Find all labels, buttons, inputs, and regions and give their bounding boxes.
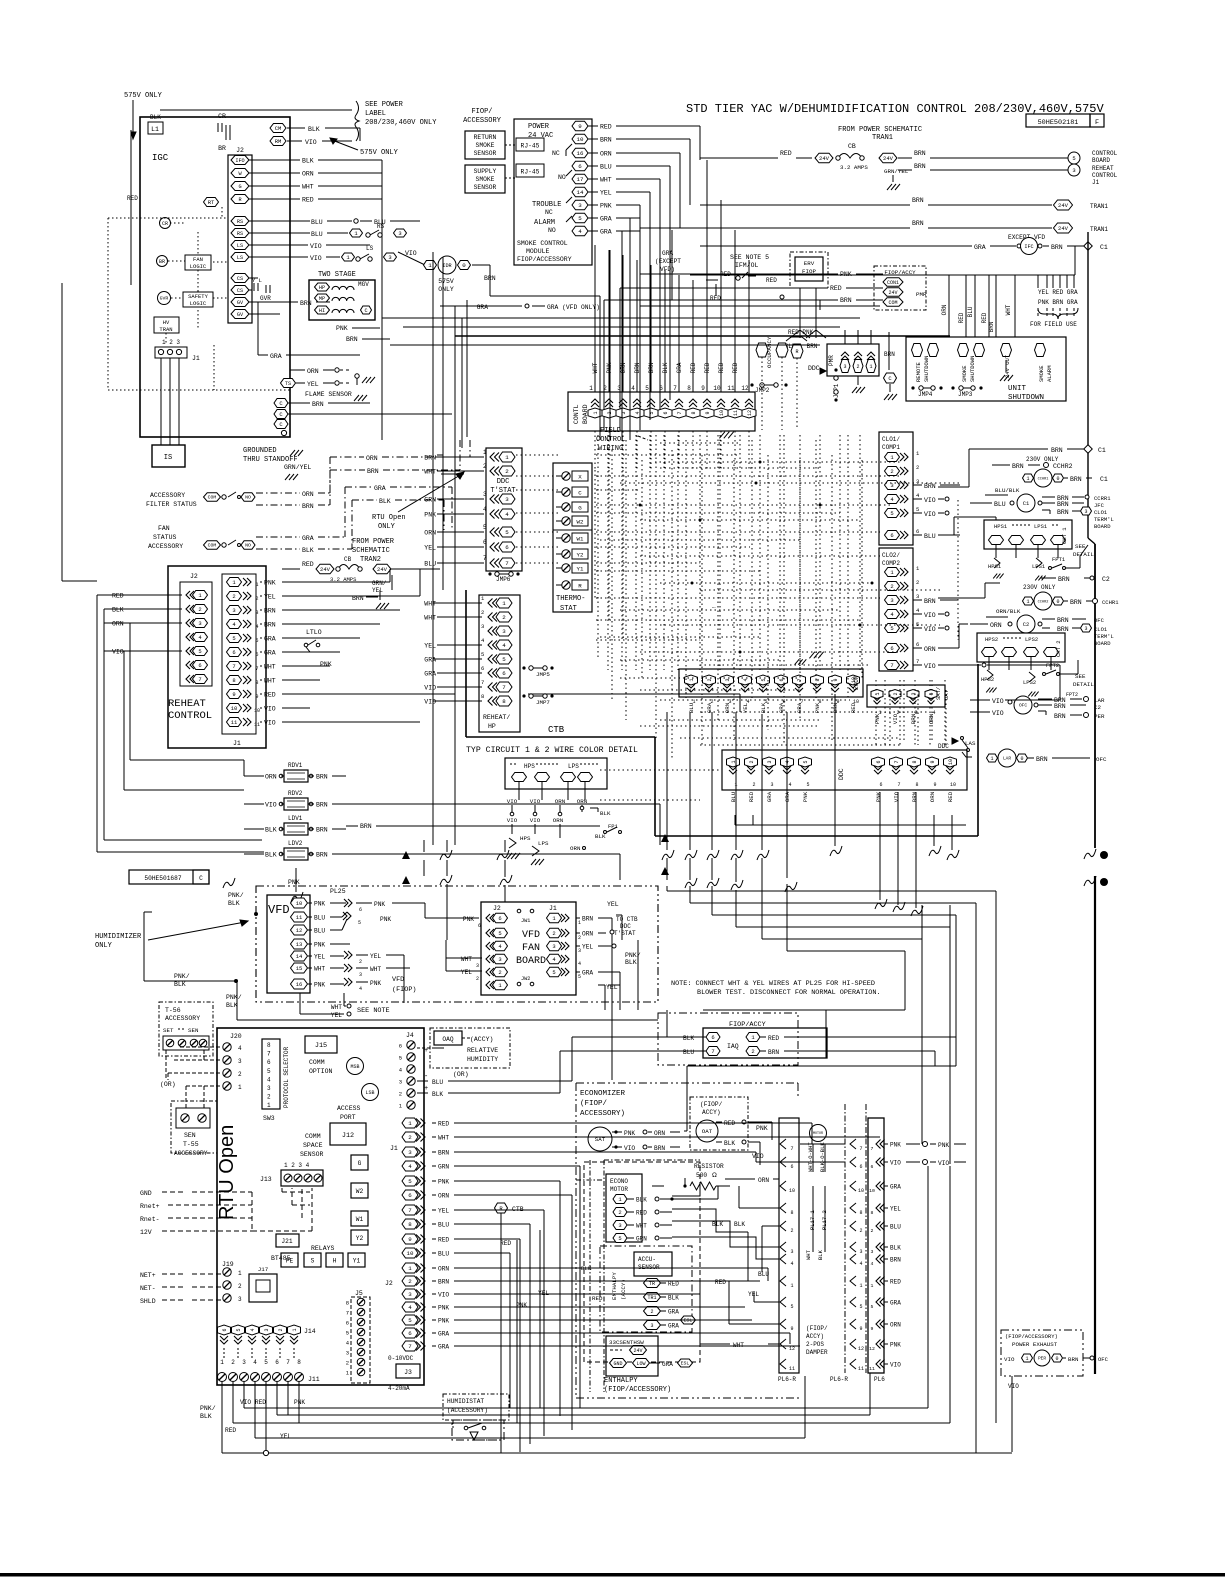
- svg-text:6: 6: [890, 532, 893, 539]
- svg-text:VIO: VIO: [752, 1153, 764, 1160]
- svg-text:3: 3: [916, 593, 919, 600]
- svg-text:HV: HV: [163, 319, 170, 326]
- svg-text:GV: GV: [237, 312, 244, 318]
- svg-text:BRN: BRN: [264, 622, 276, 629]
- svg-text:3: 3: [498, 956, 501, 963]
- svg-text:1: 1: [578, 920, 581, 926]
- svg-text:5: 5: [267, 1068, 271, 1075]
- svg-text:BRN: BRN: [300, 300, 312, 307]
- svg-text:BLK: BLK: [265, 852, 277, 859]
- svg-text:CCHR1: CCHR1: [1102, 599, 1119, 606]
- svg-text:TRAN: TRAN: [159, 326, 172, 333]
- svg-text:SMOKE: SMOKE: [1038, 365, 1045, 382]
- svg-text:RESISTOR: RESISTOR: [694, 1163, 724, 1170]
- svg-text:GRN/YEL: GRN/YEL: [284, 464, 311, 471]
- svg-text:FAN: FAN: [522, 943, 540, 954]
- svg-text:VIO: VIO: [507, 817, 518, 824]
- svg-text:BLU: BLU: [432, 1079, 443, 1086]
- svg-text:MGV: MGV: [358, 281, 369, 288]
- svg-text:BRN: BRN: [1051, 447, 1063, 454]
- svg-text:4: 4: [238, 1045, 242, 1052]
- svg-text:SAFETY: SAFETY: [188, 293, 209, 300]
- svg-text:10: 10: [254, 708, 260, 714]
- svg-text:1: 1: [869, 364, 872, 370]
- svg-text:PNK/: PNK/: [228, 892, 244, 899]
- svg-text:2: 2: [502, 614, 506, 621]
- svg-text:WHT: WHT: [733, 1342, 744, 1349]
- svg-text:8: 8: [255, 680, 258, 686]
- svg-text:RED: RED: [438, 1237, 449, 1244]
- svg-text:CKT 1: CKT 1: [1061, 527, 1068, 544]
- svg-text:7: 7: [859, 1146, 862, 1152]
- svg-text:RED: RED: [890, 1279, 901, 1286]
- svg-text:7: 7: [502, 684, 506, 691]
- svg-text:PER: PER: [1094, 713, 1105, 720]
- svg-text:YEL: YEL: [461, 969, 472, 976]
- svg-text:CS: CS: [237, 288, 243, 294]
- svg-text:GRN: GRN: [636, 1236, 647, 1243]
- svg-text:(EXCEPT: (EXCEPT: [655, 258, 681, 265]
- svg-text:3: 3: [618, 1222, 621, 1229]
- svg-text:3: 3: [1084, 626, 1087, 632]
- svg-text:ECONO: ECONO: [610, 1178, 628, 1185]
- svg-text:10: 10: [407, 1250, 414, 1257]
- svg-text:VFD: VFD: [522, 930, 540, 941]
- svg-text:BRN: BRN: [302, 503, 314, 510]
- svg-text:JMP3: JMP3: [958, 391, 973, 398]
- svg-text:MSB: MSB: [350, 1064, 359, 1070]
- svg-text:PE: PE: [286, 1258, 294, 1265]
- svg-text:5: 5: [498, 930, 501, 937]
- svg-text:NOTE: CONNECT WHT & YEL WIRES: NOTE: CONNECT WHT & YEL WIRES AT PL25 FO…: [671, 980, 875, 988]
- svg-text:8: 8: [691, 411, 697, 414]
- svg-text:RED: RED: [715, 1279, 726, 1286]
- svg-text:3.2 AMPS: 3.2 AMPS: [840, 164, 868, 171]
- svg-text:VIO: VIO: [938, 1160, 949, 1167]
- svg-text:GVR: GVR: [160, 296, 169, 302]
- svg-text:TR1: TR1: [647, 1295, 656, 1301]
- svg-text:ORN: ORN: [438, 1266, 449, 1273]
- svg-text:8: 8: [408, 1221, 412, 1228]
- svg-text:8: 8: [859, 1210, 862, 1216]
- svg-text:ESL: ESL: [684, 1318, 693, 1324]
- svg-text:GRA: GRA: [662, 1361, 673, 1368]
- svg-text:YEL: YEL: [424, 545, 436, 552]
- svg-text:6: 6: [578, 163, 582, 170]
- svg-text:BLK: BLK: [724, 1140, 735, 1147]
- svg-text:C: C: [578, 490, 582, 497]
- svg-text:2: 2: [859, 1228, 862, 1234]
- svg-text:WIRING: WIRING: [598, 445, 623, 453]
- svg-text:(FIOP/: (FIOP/: [580, 1100, 608, 1108]
- svg-text:VIO: VIO: [310, 243, 322, 250]
- svg-text:3: 3: [255, 610, 258, 616]
- svg-text:G: G: [578, 505, 582, 512]
- svg-text:2: 2: [408, 1278, 412, 1285]
- svg-text:SHUTDOWN: SHUTDOWN: [923, 356, 930, 382]
- svg-text:CLO2/: CLO2/: [882, 552, 900, 559]
- svg-text:2: 2: [751, 1048, 754, 1055]
- svg-text:NO: NO: [245, 495, 251, 501]
- svg-text:VIO: VIO: [112, 649, 124, 656]
- svg-text:RED: RED: [127, 195, 138, 202]
- svg-text:OFC: OFC: [1019, 703, 1027, 709]
- svg-text:ORN: ORN: [112, 621, 124, 628]
- svg-text:CCRR1: CCRR1: [1094, 495, 1111, 502]
- svg-text:6: 6: [916, 641, 919, 648]
- svg-text:PMR: PMR: [916, 291, 927, 298]
- svg-text:BRN: BRN: [924, 483, 936, 490]
- svg-text:8: 8: [297, 1359, 301, 1366]
- svg-text:GROUNDED: GROUNDED: [243, 447, 277, 455]
- svg-text:PNK: PNK: [624, 1130, 635, 1137]
- svg-text:12: 12: [296, 927, 303, 934]
- svg-text:J2: J2: [385, 1280, 393, 1287]
- svg-text:CTB: CTB: [548, 725, 565, 735]
- svg-text:2: 2: [498, 969, 501, 976]
- svg-text:VFD: VFD: [392, 976, 404, 984]
- svg-text:J5: J5: [355, 1290, 363, 1297]
- svg-text:CCHR1: CCHR1: [1038, 477, 1049, 481]
- svg-text:2: 2: [578, 935, 581, 941]
- svg-text:COMM: COMM: [305, 1133, 321, 1140]
- svg-text:FAN: FAN: [193, 256, 203, 263]
- svg-text:3: 3: [911, 692, 917, 695]
- svg-text:RDV2: RDV2: [288, 790, 303, 797]
- svg-text:COM: COM: [208, 495, 217, 501]
- svg-text:TS: TS: [285, 381, 291, 387]
- svg-text:BR: BR: [218, 145, 226, 152]
- svg-text:J1: J1: [1092, 179, 1100, 186]
- svg-text:WHT: WHT: [805, 1249, 812, 1260]
- svg-text:+: +: [424, 1085, 428, 1093]
- svg-text:SAT/: SAT/: [935, 687, 942, 700]
- svg-text:3: 3: [238, 1058, 242, 1065]
- svg-text:ORN: ORN: [570, 845, 581, 852]
- svg-text:VIO: VIO: [1008, 1383, 1019, 1390]
- svg-text:POWER EXHAUST: POWER EXHAUST: [1012, 1341, 1058, 1348]
- svg-text:LAR: LAR: [1094, 697, 1105, 704]
- svg-text:10: 10: [231, 705, 238, 712]
- svg-text:17: 17: [577, 176, 584, 183]
- svg-text:4: 4: [483, 506, 487, 513]
- svg-text:SHLD: SHLD: [140, 1298, 156, 1305]
- svg-text:BRN: BRN: [600, 137, 612, 144]
- svg-text:1: 1: [790, 1283, 793, 1289]
- svg-text:7: 7: [790, 1146, 793, 1152]
- svg-text:ORN: ORN: [654, 1130, 665, 1137]
- svg-text:BLK: BLK: [683, 1035, 694, 1042]
- svg-text:CLO1: CLO1: [1094, 626, 1108, 633]
- svg-text:PORT: PORT: [340, 1114, 356, 1121]
- svg-text:PNK/: PNK/: [226, 994, 242, 1001]
- svg-text:VIO: VIO: [264, 720, 276, 727]
- svg-text:BLU: BLU: [924, 533, 936, 540]
- svg-text:7: 7: [408, 1343, 412, 1350]
- svg-text:BLK: BLK: [302, 547, 314, 554]
- svg-text:11: 11: [789, 1366, 795, 1372]
- svg-text:(OR): (OR): [453, 1071, 469, 1078]
- svg-text:RED: RED: [592, 1295, 603, 1302]
- svg-text:3: 3: [767, 760, 773, 763]
- svg-text:6: 6: [255, 652, 258, 658]
- svg-text:5: 5: [803, 760, 809, 763]
- svg-text:12: 12: [747, 410, 753, 416]
- svg-text:JMP2: JMP2: [755, 387, 770, 394]
- svg-text:STATUS: STATUS: [153, 534, 177, 541]
- svg-text:VIO: VIO: [890, 1160, 901, 1167]
- svg-text:REMOTE: REMOTE: [915, 361, 922, 382]
- svg-text:BRN: BRN: [316, 774, 328, 781]
- svg-text:208/230,460V ONLY: 208/230,460V ONLY: [365, 119, 437, 127]
- svg-text:7: 7: [677, 411, 683, 414]
- svg-text:BRN: BRN: [840, 297, 852, 304]
- svg-text:WHT: WHT: [302, 184, 314, 191]
- svg-text:IAQ: IAQ: [727, 1043, 739, 1050]
- svg-text:BLK: BLK: [174, 981, 186, 988]
- svg-text:11: 11: [733, 410, 739, 416]
- svg-text:6: 6: [879, 782, 882, 788]
- svg-text:9: 9: [790, 1326, 793, 1332]
- svg-text:VIO: VIO: [892, 713, 899, 724]
- svg-text:50HE502181: 50HE502181: [1038, 119, 1079, 127]
- svg-text:3: 3: [871, 1249, 874, 1255]
- svg-text:3: 3: [483, 491, 487, 498]
- svg-text:ALARM: ALARM: [534, 219, 555, 227]
- svg-text:J21: J21: [281, 1238, 292, 1245]
- svg-text:1 2 3 4: 1 2 3 4: [284, 1162, 310, 1169]
- svg-text:CR: CR: [162, 221, 168, 227]
- svg-text:WHT: WHT: [314, 966, 325, 973]
- svg-text:500: 500: [696, 1172, 707, 1179]
- svg-text:4: 4: [788, 782, 791, 788]
- svg-text:CONTROL: CONTROL: [1092, 150, 1118, 157]
- svg-text:VIO: VIO: [890, 1362, 901, 1369]
- svg-text:3: 3: [476, 963, 479, 969]
- svg-text:24V: 24V: [883, 155, 894, 162]
- svg-text:VIO: VIO: [992, 698, 1004, 705]
- svg-text:5: 5: [502, 656, 506, 663]
- svg-text:7: 7: [505, 560, 509, 567]
- svg-text:GV: GV: [237, 300, 244, 306]
- svg-text:RTU Open: RTU Open: [216, 1125, 238, 1220]
- svg-text:OFC: OFC: [1094, 617, 1105, 624]
- svg-text:HPS1: HPS1: [994, 523, 1008, 530]
- svg-text:BRN: BRN: [1012, 463, 1024, 470]
- svg-text:Y L: Y L: [252, 277, 262, 284]
- svg-text:RJ-45: RJ-45: [521, 143, 540, 150]
- svg-text:RED: RED: [112, 593, 124, 600]
- svg-text:CCHR2: CCHR2: [1038, 600, 1049, 604]
- svg-text:LPS2: LPS2: [1025, 636, 1038, 643]
- svg-text:3: 3: [505, 496, 509, 503]
- svg-text:GRA: GRA: [264, 650, 276, 657]
- svg-text:UNIT: UNIT: [1008, 385, 1027, 393]
- svg-text:H: H: [333, 1258, 337, 1265]
- svg-text:YEL: YEL: [438, 1208, 449, 1215]
- svg-text:GRA: GRA: [582, 970, 593, 977]
- svg-text:YEL: YEL: [331, 1012, 342, 1019]
- svg-text:WHT: WHT: [370, 966, 381, 973]
- svg-text:6: 6: [408, 1192, 412, 1199]
- svg-text:BRN: BRN: [1036, 756, 1048, 763]
- svg-text:5: 5: [645, 385, 649, 392]
- svg-text:BRN: BRN: [914, 163, 926, 170]
- svg-text:BRN: BRN: [1051, 244, 1063, 251]
- svg-text:RTU Open: RTU Open: [372, 514, 406, 522]
- svg-text:HP: HP: [319, 285, 325, 291]
- svg-text:3: 3: [198, 620, 201, 627]
- svg-text:HI: HI: [319, 308, 325, 314]
- svg-text:7: 7: [198, 676, 201, 683]
- svg-text:R: R: [578, 583, 582, 590]
- svg-text:J2: J2: [236, 147, 244, 154]
- svg-text:(ACCESSORY): (ACCESSORY): [447, 1407, 488, 1414]
- svg-text:RED: RED: [947, 791, 954, 802]
- svg-text:6: 6: [359, 907, 362, 913]
- svg-text:LS: LS: [237, 255, 243, 261]
- svg-text:9: 9: [933, 782, 936, 788]
- svg-text:RED: RED: [710, 295, 721, 302]
- svg-text:PNK: PNK: [756, 1125, 768, 1132]
- svg-text:CLO1: CLO1: [1094, 509, 1108, 516]
- svg-text:5: 5: [264, 1359, 268, 1366]
- svg-text:3: 3: [843, 364, 846, 370]
- svg-text:YEL: YEL: [748, 1291, 759, 1298]
- svg-text:7: 7: [232, 663, 235, 670]
- svg-text:FAN: FAN: [158, 525, 170, 532]
- svg-text:VIO: VIO: [624, 1145, 635, 1152]
- svg-text:1: 1: [1026, 599, 1029, 605]
- svg-text:PL6-R: PL6-R: [778, 1376, 796, 1383]
- svg-text:4: 4: [505, 511, 509, 518]
- svg-text:YEL: YEL: [890, 1206, 901, 1213]
- svg-text:Rnet+: Rnet+: [140, 1203, 160, 1210]
- svg-text:ACCESSORY: ACCESSORY: [150, 492, 185, 499]
- svg-text:LDV1: LDV1: [288, 815, 303, 822]
- svg-text:3: 3: [890, 597, 893, 604]
- svg-text:1: 1: [505, 454, 509, 461]
- svg-text:7: 7: [481, 679, 484, 686]
- svg-text:2: 2: [505, 468, 509, 475]
- svg-text:ECON: ECON: [853, 675, 860, 690]
- svg-text:OPTION: OPTION: [309, 1068, 333, 1075]
- svg-text:DETAIL: DETAIL: [1073, 681, 1094, 688]
- svg-text:NC: NC: [552, 150, 560, 157]
- svg-text:5: 5: [578, 215, 582, 222]
- svg-text:6: 6: [663, 411, 669, 414]
- svg-text:PNK: PNK: [875, 791, 882, 802]
- svg-text:575V ONLY: 575V ONLY: [124, 92, 163, 100]
- svg-text:GRA: GRA: [600, 229, 612, 236]
- svg-text:15: 15: [296, 965, 303, 972]
- svg-text:FPT2: FPT2: [1066, 692, 1078, 698]
- svg-text:LPS: LPS: [568, 763, 579, 770]
- svg-text:BRN: BRN: [1068, 1356, 1079, 1363]
- svg-text:BRN: BRN: [367, 468, 379, 475]
- svg-text:JMP7: JMP7: [536, 699, 550, 706]
- svg-text:J2: J2: [493, 905, 501, 912]
- svg-text:5: 5: [232, 635, 235, 642]
- svg-text:C1: C1: [1098, 447, 1106, 454]
- svg-text:YEL: YEL: [582, 944, 593, 951]
- svg-text:Rnet-: Rnet-: [140, 1216, 160, 1223]
- svg-text:ERV: ERV: [804, 260, 815, 267]
- svg-text:VIO: VIO: [424, 685, 436, 692]
- svg-text:RED: RED: [766, 277, 777, 284]
- svg-text:ORN: ORN: [302, 171, 314, 178]
- svg-text:J3: J3: [404, 1369, 412, 1376]
- svg-text:SHUTDOWN: SHUTDOWN: [969, 356, 976, 382]
- svg-text:7: 7: [897, 782, 900, 788]
- svg-text:JMP5: JMP5: [536, 671, 550, 678]
- svg-text:2: 2: [749, 760, 755, 763]
- svg-text:ACCU-: ACCU-: [638, 1256, 656, 1263]
- svg-text:6: 6: [876, 760, 882, 763]
- svg-text:GRA: GRA: [302, 535, 314, 542]
- svg-text:10: 10: [869, 1188, 875, 1194]
- svg-text:8: 8: [232, 677, 235, 684]
- svg-text:LOGIC: LOGIC: [190, 300, 207, 307]
- svg-text:9: 9: [833, 678, 839, 681]
- svg-text:J19: J19: [222, 1261, 234, 1268]
- svg-text:SEE NOTE 5: SEE NOTE 5: [730, 254, 769, 261]
- svg-text:3: 3: [232, 607, 235, 614]
- svg-text:7: 7: [673, 385, 677, 392]
- svg-text:SEN: SEN: [184, 1132, 196, 1139]
- svg-text:ORN: ORN: [553, 817, 564, 824]
- svg-text:CON1: CON1: [887, 280, 899, 286]
- svg-text:4: 4: [578, 961, 581, 967]
- svg-text:LS: LS: [237, 243, 243, 249]
- svg-text:BRN: BRN: [912, 197, 924, 204]
- svg-text:9: 9: [930, 760, 936, 763]
- svg-text:2: 2: [346, 1360, 349, 1367]
- svg-text:YEL: YEL: [600, 190, 612, 197]
- svg-text:24V: 24V: [1058, 225, 1069, 232]
- svg-text:3: 3: [790, 1249, 793, 1255]
- svg-text:LPS2: LPS2: [1023, 679, 1036, 686]
- svg-text:ACCESSORY: ACCESSORY: [148, 543, 183, 550]
- svg-text:C: C: [364, 308, 367, 314]
- svg-text:2: 2: [278, 1328, 284, 1331]
- svg-text:COM: COM: [208, 543, 217, 549]
- svg-text:5: 5: [399, 1055, 402, 1062]
- svg-text:9: 9: [871, 1326, 874, 1332]
- svg-text:10: 10: [789, 1188, 795, 1194]
- svg-text:TYP CIRCUIT 1 & 2 WIRE COLOR D: TYP CIRCUIT 1 & 2 WIRE COLOR DETAIL: [466, 746, 638, 755]
- svg-text:6: 6: [346, 1320, 349, 1327]
- svg-text:BLU: BLU: [438, 1222, 449, 1229]
- svg-text:1: 1: [502, 600, 506, 607]
- svg-text:CCHR2: CCHR2: [1053, 463, 1073, 470]
- svg-text:DETAIL: DETAIL: [1073, 551, 1094, 558]
- svg-text:3: 3: [359, 972, 362, 978]
- svg-text:BRN: BRN: [1054, 703, 1066, 710]
- svg-text:J12: J12: [342, 1132, 354, 1140]
- svg-text:2: 2: [916, 464, 919, 471]
- svg-text:PMR: PMR: [828, 355, 835, 366]
- svg-text:FROM POWER SCHEMATIC: FROM POWER SCHEMATIC: [838, 126, 922, 134]
- svg-text:5: 5: [483, 524, 487, 531]
- svg-text:BLK: BLK: [112, 607, 124, 614]
- svg-text:LOGIC: LOGIC: [190, 263, 207, 270]
- svg-text:LTLO: LTLO: [306, 629, 322, 636]
- svg-text:DDC: DDC: [497, 478, 510, 486]
- svg-text:3: 3: [916, 478, 919, 485]
- svg-text:DDC: DDC: [838, 768, 845, 780]
- svg-text:3: 3: [1072, 167, 1075, 174]
